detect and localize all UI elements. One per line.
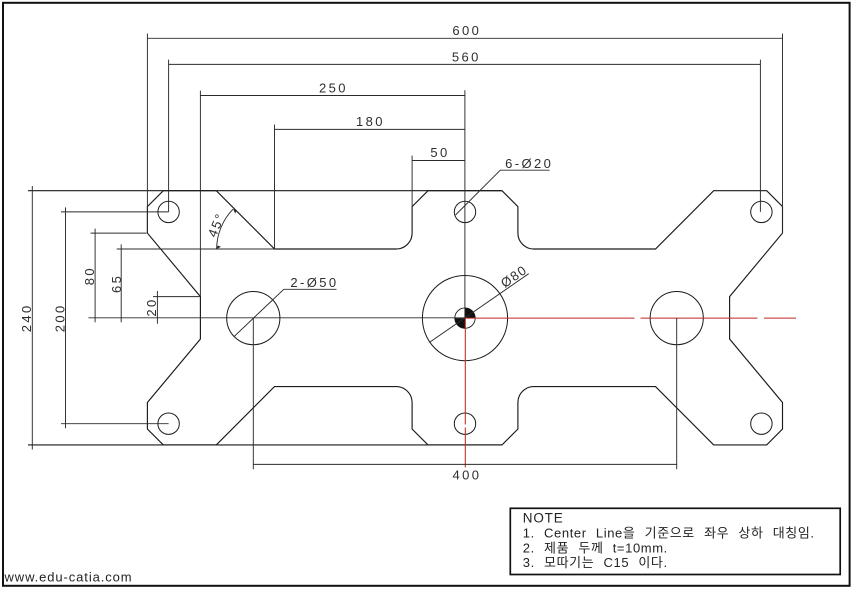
arrowhead arc top end (233, 209, 237, 214)
plate outline (147, 191, 782, 445)
svg-text:1. Center Line을 기준으로 좌우 상하 대칭임: 1. Center Line을 기준으로 좌우 상하 대칭임. (523, 526, 815, 541)
extension 200 top to hole center (61, 211, 169, 213)
dim line 240 (31, 186, 33, 450)
centerline horizontal red (right of center) (465, 317, 796, 319)
extension right 560 to hole center (759, 60, 761, 212)
extension 20 to waist corner (153, 296, 200, 298)
hole D20 top-left (158, 201, 179, 222)
arrowhead arc bottom end (217, 246, 221, 250)
centerline vertical red (below center) (464, 318, 466, 467)
circle D80 center (422, 276, 507, 361)
centerline horizontal black (left of center) (88, 317, 465, 319)
leader line 2-D50 (234, 289, 337, 337)
angular dim 45deg arc (217, 209, 234, 249)
svg-text:80: 80 (82, 266, 97, 285)
center point marker (455, 308, 475, 328)
bottom edge line / 240 dim bottom extension (28, 444, 502, 446)
dim line 200 (65, 207, 67, 428)
extension right 400 from D50 center (676, 318, 678, 469)
hole D20 bottom-right (751, 413, 772, 434)
svg-text:250: 250 (319, 80, 348, 95)
hole D50 right (650, 292, 703, 345)
dim line 560 (169, 63, 761, 65)
note box (510, 508, 840, 574)
dim line 50 (412, 160, 465, 162)
dim line 20 (156, 291, 158, 324)
svg-text:20: 20 (144, 297, 159, 316)
top edge line / 240 dim top extension (28, 190, 502, 192)
dim line 180 (275, 128, 465, 130)
extension left 250 to waist edge (199, 91, 201, 297)
dim line 400 (253, 463, 676, 465)
svg-text:560: 560 (452, 50, 481, 65)
hole D20 bottom-left (158, 413, 179, 434)
leader line 6-D20 (456, 170, 550, 215)
svg-text:600: 600 (452, 23, 481, 38)
hole D50 left (227, 292, 280, 345)
extension left 180 to notch corner (274, 125, 276, 250)
hole D20 bottom-center (454, 413, 475, 434)
extension 200 bottom to hole center (61, 423, 169, 425)
centerline vertical black (above center) (464, 90, 466, 318)
svg-text:2. 제품 두께 t=10mm.: 2. 제품 두께 t=10mm. (523, 540, 668, 555)
extension 80 to plate left edge (91, 232, 147, 234)
svg-text:2-Ø50: 2-Ø50 (290, 275, 338, 290)
extension 65 to notch bottom (117, 248, 275, 250)
svg-text:50: 50 (430, 145, 449, 160)
dim line 250 (200, 95, 465, 97)
leader line D80 diameter (429, 274, 528, 343)
extension left 400 from D50 center (252, 318, 254, 469)
svg-text:www.edu-catia.com: www.edu-catia.com (4, 570, 133, 585)
svg-text:6-Ø20: 6-Ø20 (505, 156, 553, 171)
extension left 600 / plate left edge upper (146, 34, 148, 234)
extension left 50 / notch edge (411, 156, 413, 234)
dim line 80 (94, 229, 96, 323)
svg-text:400: 400 (453, 467, 482, 482)
svg-text:240: 240 (19, 303, 34, 332)
svg-text:65: 65 (109, 274, 124, 293)
hole D20 top-right (751, 201, 772, 222)
svg-text:200: 200 (52, 303, 67, 332)
svg-text:NOTE: NOTE (523, 511, 564, 526)
extension left 560 to hole center (168, 60, 170, 212)
svg-text:180: 180 (356, 114, 385, 129)
svg-text:3. 모따기는 C15 이다.: 3. 모따기는 C15 이다. (523, 555, 668, 570)
dim line 65 (120, 244, 122, 322)
hole D20 top-center (454, 201, 475, 222)
extension right 600 / plate right edge upper (782, 34, 784, 234)
dim line 600 (147, 37, 782, 39)
